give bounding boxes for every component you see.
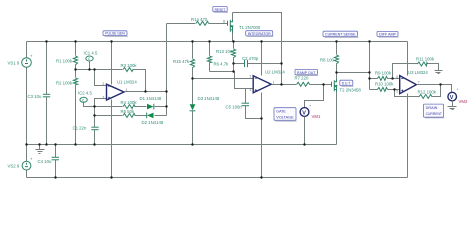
svg-text:R9 100k: R9 100k	[375, 70, 392, 75]
wire U3 power pins	[407, 42, 409, 178]
capacitor C3	[43, 94, 50, 97]
wire R12 feedback	[395, 85, 441, 97]
junction dots bottom rail	[54, 176, 262, 178]
svg-text:R1 100k: R1 100k	[56, 59, 73, 64]
svg-text:RAMP OUT: RAMP OUT	[297, 70, 316, 75]
svg-text:DIFF AMP: DIFF AMP	[379, 32, 396, 37]
svg-text:5: 5	[396, 90, 398, 94]
svg-text:T2 2N3458: T2 2N3458	[340, 88, 362, 93]
svg-text:GATE: GATE	[276, 109, 286, 114]
wire T1 drain to integrator output	[233, 13, 282, 85]
resistor R8	[334, 55, 338, 64]
wire R9 row	[370, 78, 400, 80]
IC marker IC1	[86, 56, 93, 70]
svg-text:R4 100k: R4 100k	[121, 100, 138, 105]
op-amp U3	[400, 76, 417, 94]
svg-text:R15 47k: R15 47k	[173, 59, 190, 64]
wire R8 column	[336, 42, 338, 73]
svg-text:R6 4.7k: R6 4.7k	[214, 62, 230, 67]
svg-text:C5 100n: C5 100n	[226, 105, 243, 110]
label box INTEGRATOR	[246, 31, 274, 37]
junction dots top rail	[45, 40, 370, 42]
wire R14 row	[167, 23, 228, 25]
wire R15 D3 column	[192, 42, 194, 145]
label box DIFF AMP	[377, 31, 399, 37]
svg-text:VM1: VM1	[312, 114, 321, 119]
svg-text:2: 2	[250, 75, 252, 79]
svg-text:C3 10u: C3 10u	[28, 94, 42, 99]
svg-text:VS1 9: VS1 9	[8, 61, 20, 66]
op-amp U2	[253, 76, 271, 93]
svg-text:CURRENT: CURRENT	[426, 111, 443, 116]
node row y70	[76, 69, 95, 71]
resistor R5	[123, 113, 135, 117]
label box GATE VOLTAGE	[274, 108, 297, 121]
wire U1 output row	[124, 91, 167, 93]
capacitor C5	[242, 103, 249, 106]
wire drain sense to R10	[337, 72, 370, 74]
svg-text:R3 100k: R3 100k	[121, 63, 138, 68]
svg-text:C1 22n: C1 22n	[73, 126, 87, 131]
wire R13 column	[233, 42, 235, 72]
wire U1 non-inverting input and C1 column	[95, 99, 107, 145]
svg-text:V: V	[450, 95, 454, 101]
svg-text:IC1 4.5: IC1 4.5	[84, 51, 98, 56]
wire VS2 column	[26, 145, 28, 178]
resistor R14	[196, 21, 209, 25]
wire mid common rail	[27, 144, 337, 146]
ground at common rail	[36, 145, 45, 154]
svg-text:U1 LM324: U1 LM324	[117, 79, 137, 84]
resistor R3	[123, 68, 133, 72]
svg-text:R8 100: R8 100	[320, 58, 334, 63]
label box CURRENT SENSE	[323, 31, 358, 37]
svg-text:R5 50k: R5 50k	[121, 109, 135, 114]
svg-text:3: 3	[250, 88, 252, 92]
wire U3 output to VM2	[417, 85, 452, 93]
svg-text:R14 470: R14 470	[191, 17, 208, 22]
svg-text:R2 100k: R2 100k	[56, 81, 73, 86]
wire VM1 to common	[304, 117, 306, 145]
wire R15 tap to U2 input	[193, 78, 254, 80]
wire output to reset vertical	[166, 24, 168, 116]
capacitor C4	[52, 157, 59, 160]
label box RESET	[213, 7, 228, 13]
svg-text:C4 10u: C4 10u	[38, 159, 52, 164]
wire R4 D1 row	[95, 106, 167, 108]
svg-text:D3 1N4148: D3 1N4148	[198, 96, 220, 101]
wire C2 feedback row	[234, 63, 282, 65]
svg-text:R12 100k: R12 100k	[418, 90, 437, 95]
wire R3 feedback row	[95, 70, 146, 92]
junction dots integrator section	[191, 62, 282, 119]
resistor R13	[231, 49, 235, 58]
svg-text:R7 220: R7 220	[295, 75, 309, 80]
svg-text:D2 1N4148: D2 1N4148	[142, 120, 164, 125]
wire C5 branch	[246, 89, 262, 119]
svg-text:VM2: VM2	[459, 99, 468, 104]
svg-text:INTEGRATOR: INTEGRATOR	[248, 31, 271, 36]
svg-text:U3 LM324: U3 LM324	[408, 70, 428, 75]
resistor R6	[207, 56, 211, 63]
svg-text:6: 6	[396, 75, 398, 79]
svg-text:VOLTAGE: VOLTAGE	[276, 115, 294, 120]
svg-text:VS2 9: VS2 9	[8, 164, 20, 169]
svg-text:C2 470p: C2 470p	[242, 56, 259, 61]
svg-text:T1 2N7000: T1 2N7000	[239, 25, 261, 30]
svg-text:IC2 4.5: IC2 4.5	[78, 90, 92, 95]
svg-text:DRAIN: DRAIN	[426, 105, 438, 110]
svg-text:2: 2	[103, 82, 105, 86]
wire C4 column	[55, 145, 57, 178]
resistor R1	[73, 56, 77, 65]
svg-text:R10 100k: R10 100k	[375, 81, 394, 86]
wire R10 row	[370, 89, 400, 91]
junction dots mid rail	[25, 143, 305, 145]
resistor R7	[297, 82, 310, 86]
svg-text:D.U.T.: D.U.T.	[342, 81, 351, 86]
resistor R12	[419, 94, 432, 98]
wire sense divider vertical	[369, 42, 371, 90]
svg-text:RESET: RESET	[215, 7, 226, 12]
wire R1 R2 column	[75, 42, 77, 145]
label box RAMP OUT	[295, 69, 318, 75]
svg-text:R13 100: R13 100	[216, 49, 233, 54]
resistor R15	[190, 59, 194, 68]
svg-text:g: g	[223, 19, 225, 23]
op-amp U1	[107, 84, 125, 100]
svg-text:+: +	[457, 88, 459, 92]
wire gate tap to VM1	[305, 85, 324, 108]
wire bottom rail	[27, 177, 408, 179]
wire U1 inverting input	[95, 70, 107, 86]
wire VS1 column	[26, 42, 28, 145]
IC marker IC2	[80, 97, 95, 106]
wire R6 column	[209, 42, 211, 72]
transistor T1 2N7000	[228, 13, 234, 42]
label box DRAIN CURRENT	[423, 104, 444, 118]
junction dots right section	[322, 71, 441, 90]
wire R11 feedback	[393, 64, 439, 79]
capacitor C2	[245, 60, 248, 67]
wire R6 to U2 non-inverting	[210, 72, 254, 89]
wire C3 column	[46, 42, 48, 145]
voltmeter VM2	[448, 88, 459, 101]
voltmeter VM1	[300, 104, 311, 117]
transistor T2 DUT	[332, 73, 338, 92]
svg-text:3: 3	[103, 96, 105, 100]
voltage source VS1	[22, 54, 33, 68]
wire top rail	[27, 41, 408, 43]
diode D1	[147, 104, 154, 110]
svg-text:+: +	[309, 104, 311, 108]
voltage source VS2	[22, 157, 33, 171]
resistor R11	[417, 62, 427, 66]
junction dots left section	[74, 68, 167, 116]
svg-text:R11 100k: R11 100k	[416, 57, 435, 62]
svg-text:PULSE GEN: PULSE GEN	[105, 31, 125, 36]
wire U2 power pins	[261, 42, 263, 178]
wire T2 source to common	[336, 92, 338, 145]
ground at VM2	[448, 101, 457, 110]
svg-text:D1 1N4148: D1 1N4148	[140, 96, 162, 101]
wire U1 power pins	[111, 42, 113, 178]
resistor R4	[123, 105, 135, 109]
wire U2 output row to gate	[272, 84, 332, 86]
svg-text:V: V	[302, 110, 306, 116]
label box DUT	[340, 80, 354, 86]
svg-text:U2 LM324: U2 LM324	[265, 70, 285, 75]
resistor R9	[377, 76, 387, 80]
resistor R2	[73, 78, 77, 85]
svg-text:1: 1	[273, 80, 275, 84]
ground at R11	[435, 71, 443, 74]
diode D3	[190, 104, 196, 111]
resistor R10	[377, 87, 387, 91]
capacitor C1	[91, 127, 98, 130]
diode D2	[147, 113, 154, 119]
wire R5 D2 row	[95, 115, 167, 117]
svg-text:CURRENT SENSE: CURRENT SENSE	[325, 32, 356, 37]
label box PULSE GEN	[103, 31, 128, 37]
